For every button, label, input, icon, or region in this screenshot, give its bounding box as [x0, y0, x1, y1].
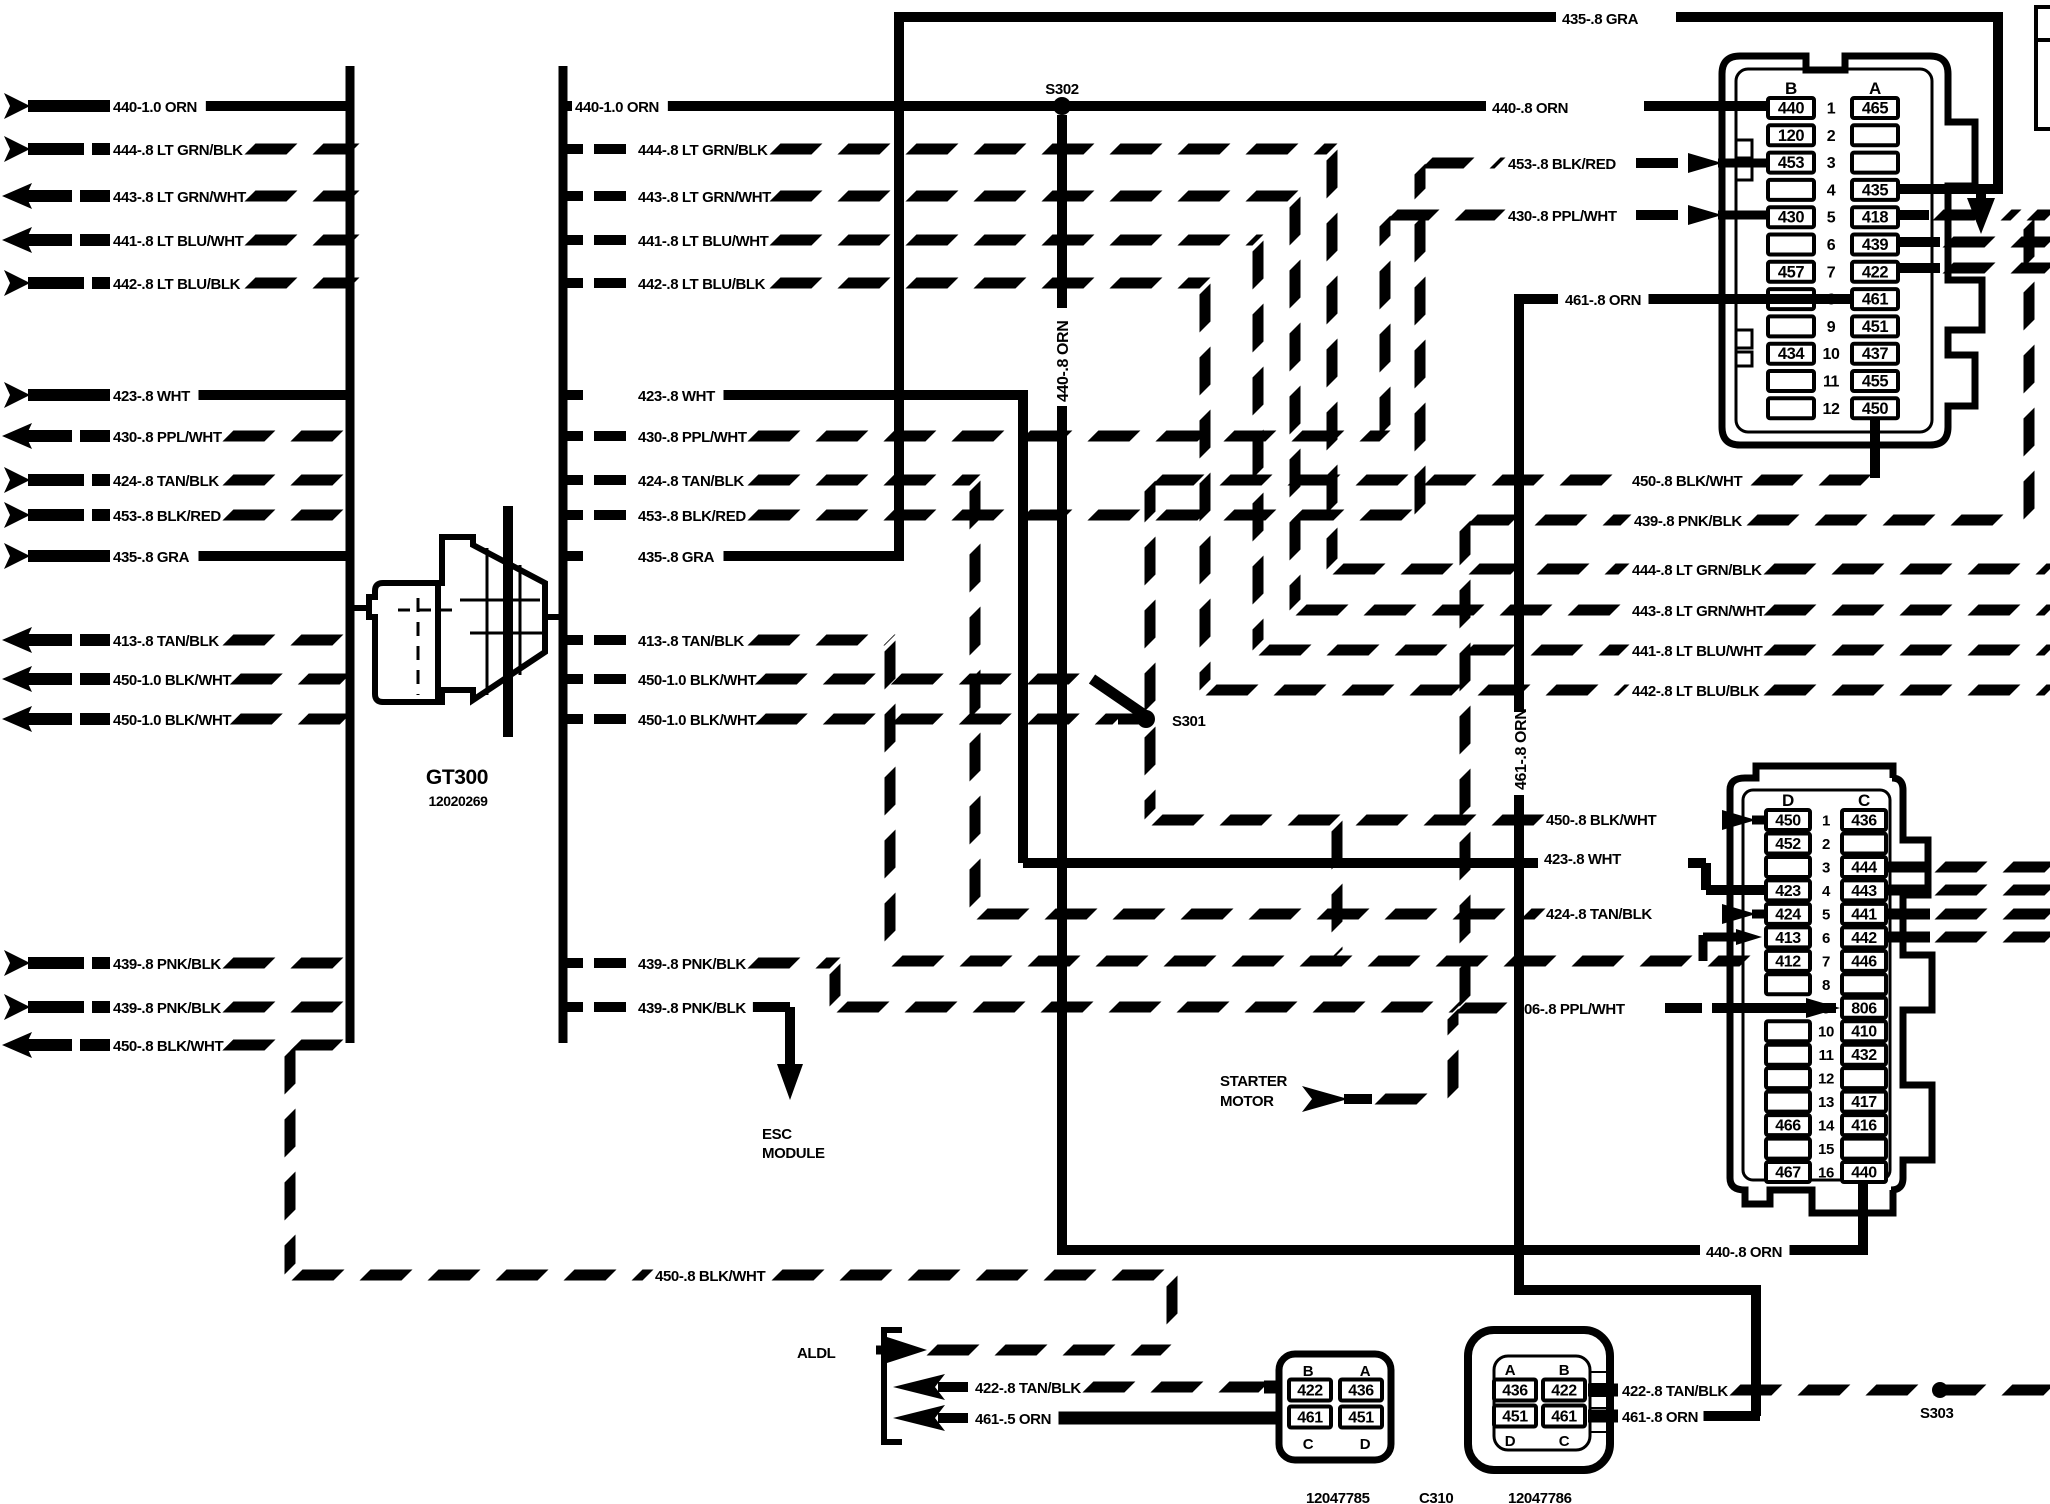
wire 430-.8 PPL/WHT (center stub, y=436): [559, 431, 583, 441]
svg-text:439-.8 PNK/BLK: 439-.8 PNK/BLK: [113, 1000, 221, 1017]
wire 444-.8 LT GRN/BLK (right row 569): [1338, 564, 1624, 575]
wire 450-1.0 BLK/WHT (center stub, y=679): [559, 674, 583, 684]
svg-text:S303: S303: [1920, 1405, 1953, 1422]
svg-text:450-1.0 BLK/WHT: 450-1.0 BLK/WHT: [113, 712, 231, 729]
wire 444-.8 LT GRN/BLK (left row, y=149): [4, 136, 30, 162]
wire 423-.8 WHT route: down at x=1023, right at y=863: [724, 390, 1024, 400]
svg-text:442-.8 LT BLU/BLK: 442-.8 LT BLU/BLK: [113, 276, 241, 293]
svg-text:9: 9: [1827, 319, 1836, 336]
svg-text:D: D: [1505, 1433, 1516, 1450]
upper connector left keyway tabs: [1736, 140, 1752, 180]
wire 461-.8 ORN main vertical x=1519: [1514, 294, 1524, 712]
svg-text:440-1.0 ORN: 440-1.0 ORN: [113, 99, 197, 116]
wire 440-.8 ORN riser into pin C16: [1858, 1180, 1868, 1255]
wire 439-.8 PNK/BLK (row 1007) solid to ESC MODULE arrow: [753, 1002, 790, 1012]
connector 12047786 pin 422: [1543, 1380, 1585, 1401]
svg-text:MOTOR: MOTOR: [1220, 1093, 1274, 1110]
svg-text:439-.8 PNK/BLK: 439-.8 PNK/BLK: [1634, 513, 1742, 530]
connector 12047785 pin 451: [1340, 1407, 1382, 1428]
svg-text:416: 416: [1851, 1118, 1877, 1135]
wire 430-.8 PPL/WHT route: up at x=1385 to pin B5: [753, 431, 1385, 442]
svg-text:453-.8 BLK/RED: 453-.8 BLK/RED: [113, 508, 221, 525]
svg-text:453-.8 BLK/RED: 453-.8 BLK/RED: [1508, 156, 1616, 173]
svg-text:439-.8 PNK/BLK: 439-.8 PNK/BLK: [638, 956, 746, 973]
svg-text:11: 11: [1823, 374, 1840, 391]
svg-text:B: B: [1785, 79, 1797, 98]
top right partial connector box: [2036, 7, 2050, 129]
connector 12047785 (ALDL) body: [1279, 1354, 1391, 1460]
svg-text:461-.5 ORN: 461-.5 ORN: [975, 1411, 1051, 1428]
svg-text:3: 3: [1822, 859, 1830, 876]
GT300 harness vertical line: [503, 506, 513, 737]
svg-text:450-1.0 BLK/WHT: 450-1.0 BLK/WHT: [638, 672, 756, 689]
connector 12047786 body (outer): [1468, 1330, 1610, 1470]
upper connector row 7 (B=457, A=422): [1768, 262, 1814, 282]
svg-text:435-.8 GRA: 435-.8 GRA: [113, 549, 190, 566]
svg-text:6: 6: [1827, 237, 1836, 254]
svg-text:3: 3: [1827, 155, 1836, 172]
svg-text:442-.8 LT BLU/BLK: 442-.8 LT BLU/BLK: [638, 276, 766, 293]
lower connector row 3 (D=nc, C=444): [1766, 857, 1810, 877]
svg-text:418: 418: [1862, 209, 1889, 227]
wire 450-.8 BLK/WHT (left row, y=1045): [2, 1032, 32, 1058]
GT300 stub to left bus: [350, 605, 372, 611]
svg-text:444-.8 LT GRN/BLK: 444-.8 LT GRN/BLK: [113, 142, 243, 159]
GT300 stub to right bus: [545, 614, 563, 620]
wire 439-.8 PNK/BLK (center stub, y=1007): [559, 1002, 583, 1012]
wire 439 stub from pin A6 to right edge: [1898, 237, 1940, 247]
svg-text:443: 443: [1851, 883, 1877, 900]
svg-text:452: 452: [1775, 836, 1801, 853]
svg-text:C: C: [1303, 1436, 1314, 1453]
svg-text:450-1.0 BLK/WHT: 450-1.0 BLK/WHT: [638, 712, 756, 729]
wire 441-.8 LT BLU/WHT (right row 650): [1264, 645, 1624, 656]
wire 443 stub from pin C4 to right edge: [1886, 885, 1930, 896]
svg-text:440: 440: [1778, 100, 1805, 118]
svg-text:467: 467: [1775, 1165, 1801, 1182]
svg-text:435-.8 GRA: 435-.8 GRA: [1562, 11, 1639, 28]
svg-text:453: 453: [1778, 154, 1805, 172]
svg-text:5: 5: [1822, 906, 1830, 923]
svg-text:413-.8 TAN/BLK: 413-.8 TAN/BLK: [638, 633, 744, 650]
svg-text:443-.8 LT GRN/WHT: 443-.8 LT GRN/WHT: [1632, 603, 1765, 620]
lower connector body inner: [1743, 790, 1890, 1180]
wire 430-.8 PPL/WHT (left row, y=436): [2, 423, 32, 449]
wire 439-.8 PNK/BLK: up at x=2029, exits right at y=215: [2024, 224, 2035, 514]
lower connector row 7 (D=412, C=446): [1766, 951, 1810, 971]
wire 450-.8 BLK/WHT bottom run y=1275: [297, 1270, 648, 1281]
wire 413/412 run at y=961 to pin D7: [897, 956, 1745, 967]
wire 413-.8 TAN/BLK route: down at x=890: [753, 635, 890, 646]
svg-text:S301: S301: [1172, 713, 1205, 730]
svg-text:422-.8 TAN/BLK: 422-.8 TAN/BLK: [975, 1380, 1081, 1397]
wire 440-.8 ORN label (upper right): [1486, 94, 1644, 118]
svg-text:451: 451: [1862, 318, 1889, 336]
svg-text:1: 1: [1822, 813, 1830, 830]
wire 424-.8 TAN/BLK route: down at x=975 to pin D5: [753, 475, 975, 486]
connector 12047786 inner comb: [1590, 1371, 1606, 1373]
wire 450-1.0 BLK/WHT (left row, y=719): [2, 706, 32, 732]
svg-text:466: 466: [1775, 1118, 1801, 1135]
svg-text:453-.8 BLK/RED: 453-.8 BLK/RED: [638, 508, 746, 525]
upper connector row 5 (B=430, A=418): [1768, 207, 1814, 227]
wire 439-.8 PNK/BLK (row 963): down at x=835: [753, 958, 835, 969]
ALDL row 2: wire 422-.8 TAN/BLK: [893, 1374, 945, 1400]
arrow into pin D1: [1722, 810, 1756, 830]
svg-text:442: 442: [1851, 930, 1877, 947]
svg-text:S302: S302: [1045, 81, 1078, 98]
svg-text:424: 424: [1775, 906, 1801, 923]
wire 422 stub from pin A7 to right edge: [1898, 263, 1940, 273]
ALDL row 3: wire 461-.5 ORN: [893, 1405, 945, 1431]
svg-text:12047785: 12047785: [1306, 1490, 1370, 1504]
svg-text:455: 455: [1862, 373, 1889, 391]
svg-text:440: 440: [1851, 1165, 1877, 1182]
svg-text:461: 461: [1297, 1410, 1323, 1427]
upper connector body outer: [1722, 56, 1982, 445]
svg-text:6: 6: [1822, 930, 1830, 947]
svg-text:446: 446: [1851, 953, 1877, 970]
splice S301 dot: [1137, 710, 1155, 728]
svg-text:422: 422: [1297, 1383, 1323, 1400]
right harness bus (trunk line 2): [559, 66, 568, 1043]
wire 439-.8 PNK/BLK: up at x=1465 to row 520: [1460, 526, 1471, 1001]
svg-text:432: 432: [1851, 1047, 1877, 1064]
wire 442 stub from pin C6 to right edge: [1886, 932, 1930, 943]
lower connector row 10 (D=nc, C=410): [1766, 1021, 1810, 1041]
svg-text:440-.8 ORN: 440-.8 ORN: [1492, 100, 1568, 117]
upper connector row 1 (B=440, A=465): [1768, 98, 1814, 118]
wire 440 into pin B1 (upper connector): [1700, 101, 1770, 111]
lower connector row 14 (D=466, C=416): [1766, 1115, 1810, 1135]
svg-text:450: 450: [1862, 400, 1889, 418]
wire 442-.8 LT BLU/BLK (left row, y=283): [4, 270, 30, 296]
lower connector body outer: [1730, 766, 1932, 1213]
wire 435-.8 GRA drop to pin A4: [1993, 12, 2003, 189]
svg-text:461: 461: [1862, 291, 1889, 309]
lower connector row 1 (D=450, C=436): [1766, 810, 1810, 830]
svg-text:436: 436: [1851, 813, 1877, 830]
wire 424-.8 TAN/BLK (center stub, y=480): [559, 475, 583, 485]
svg-text:443-.8 LT GRN/WHT: 443-.8 LT GRN/WHT: [638, 189, 771, 206]
svg-text:C310: C310: [1419, 1490, 1453, 1504]
svg-text:461-.8 ORN: 461-.8 ORN: [1565, 292, 1641, 309]
wire 450-.8 BLK/WHT (row 1045): down at x=290: [228, 1040, 290, 1051]
svg-text:450-.8 BLK/WHT: 450-.8 BLK/WHT: [655, 1268, 765, 1285]
svg-text:440-.8 ORN: 440-.8 ORN: [1706, 1244, 1782, 1261]
upper connector row 4 (B=nc, A=435): [1768, 180, 1814, 200]
arrow into pin B5: [1688, 205, 1722, 225]
svg-text:435-.8 GRA: 435-.8 GRA: [638, 549, 715, 566]
svg-text:439-.8 PNK/BLK: 439-.8 PNK/BLK: [113, 956, 221, 973]
wire 435-.8 GRA route: up at x=899 to top run: [724, 551, 900, 561]
wire 461-.8 ORN bottom route to connector 12047786: [1514, 1285, 1756, 1295]
wire 413 step up into pin D6 with arrow: [1699, 935, 1708, 961]
svg-text:451: 451: [1348, 1410, 1374, 1427]
connector 12047786 pin 461: [1543, 1406, 1585, 1427]
svg-text:442-.8 LT BLU/BLK: 442-.8 LT BLU/BLK: [1632, 683, 1760, 700]
svg-text:465: 465: [1862, 100, 1889, 118]
upper connector row 12 (B=nc, A=450): [1768, 398, 1814, 418]
svg-text:437: 437: [1862, 345, 1889, 363]
wire 440-1.0 ORN center run to splice S302 and on to pin B1: [668, 101, 1766, 111]
svg-text:430-.8 PPL/WHT: 430-.8 PPL/WHT: [113, 429, 222, 446]
wire 443-.8 LT GRN/WHT (left row, y=196): [2, 183, 32, 209]
svg-text:412: 412: [1775, 953, 1801, 970]
svg-text:C: C: [1559, 1433, 1570, 1450]
svg-text:ALDL: ALDL: [797, 1345, 836, 1362]
svg-text:424-.8 TAN/BLK: 424-.8 TAN/BLK: [1546, 906, 1652, 923]
svg-text:441-.8 LT BLU/WHT: 441-.8 LT BLU/WHT: [1632, 643, 1763, 660]
svg-text:806-.8 PPL/WHT: 806-.8 PPL/WHT: [1516, 1001, 1625, 1018]
svg-text:461: 461: [1551, 1409, 1577, 1426]
svg-text:2: 2: [1822, 836, 1830, 853]
ESC MODULE arrow (down): [777, 1064, 803, 1100]
wire 442-.8 LT BLU/BLK (center stub, y=283): [559, 278, 583, 288]
wire 450-1.0 BLK/WHT (row 719) into splice S301: [760, 714, 1118, 725]
svg-text:450: 450: [1775, 813, 1801, 830]
svg-text:436: 436: [1348, 1383, 1374, 1400]
lower connector row 13 (D=nc, C=417): [1766, 1092, 1810, 1112]
GT300 internal detail lines: [486, 548, 489, 695]
svg-text:450-.8 BLK/WHT: 450-.8 BLK/WHT: [113, 1038, 223, 1055]
upper connector row 3 (B=453, A=nc): [1768, 153, 1814, 173]
svg-text:GT300: GT300: [426, 766, 488, 789]
svg-text:12047786: 12047786: [1508, 1490, 1572, 1504]
lower connector row 5 (D=424, C=441): [1766, 904, 1810, 924]
svg-text:423-.8 WHT: 423-.8 WHT: [638, 388, 715, 405]
svg-text:441-.8 LT BLU/WHT: 441-.8 LT BLU/WHT: [638, 233, 769, 250]
svg-text:424-.8 TAN/BLK: 424-.8 TAN/BLK: [638, 473, 744, 490]
lower connector row 4 (D=423, C=443): [1766, 880, 1810, 900]
svg-text:424-.8 TAN/BLK: 424-.8 TAN/BLK: [113, 473, 219, 490]
wire 444-.8 LT GRN/BLK (center stub, y=149): [559, 144, 583, 154]
svg-text:461-.8 ORN: 461-.8 ORN: [1622, 1409, 1698, 1426]
lower connector row 16 (D=467, C=440): [1766, 1162, 1810, 1182]
wire 440-1.0 ORN (center stub, y=106): [559, 101, 572, 111]
svg-text:435: 435: [1862, 181, 1889, 199]
left harness bus (trunk line 1): [346, 66, 355, 1043]
svg-text:434: 434: [1778, 345, 1806, 363]
wire 435-.8 GRA (left row, y=556): [4, 543, 30, 569]
svg-text:MODULE: MODULE: [762, 1145, 825, 1162]
svg-text:450-1.0 BLK/WHT: 450-1.0 BLK/WHT: [113, 672, 231, 689]
upper connector row 8 (B=nc, A=461): [1768, 289, 1814, 309]
splice S302 dot: [1053, 97, 1071, 115]
wire 442-.8 LT BLU/BLK (right row 690): [1211, 685, 1624, 696]
wire 439-.8 PNK/BLK (left row, y=1007): [4, 994, 30, 1020]
svg-text:443-.8 LT GRN/WHT: 443-.8 LT GRN/WHT: [113, 189, 246, 206]
svg-text:440-1.0 ORN: 440-1.0 ORN: [575, 99, 659, 116]
svg-text:10: 10: [1818, 1024, 1834, 1041]
wire 439-.8 PNK/BLK (left row, y=963): [4, 950, 30, 976]
lower connector row 2 (D=452, C=nc): [1766, 833, 1810, 853]
wire 441-.8 LT BLU/WHT (left row, y=240): [2, 227, 32, 253]
STARTER MOTOR arrow and wire to 806: [1302, 1086, 1348, 1112]
lower connector row 12 (D=nc, C=nc): [1766, 1068, 1810, 1088]
wire 461-.8 ORN top corner and label: [1514, 294, 1558, 304]
wire 435-.8 GRA top run: [894, 12, 1556, 22]
svg-text:12: 12: [1818, 1071, 1834, 1088]
svg-text:422: 422: [1551, 1383, 1577, 1400]
wire 413-.8 TAN/BLK (center stub, y=640): [559, 635, 583, 645]
lower connector row 8 (D=nc, C=nc): [1766, 974, 1810, 994]
wire 450-1.0 BLK/WHT (left row, y=679): [2, 666, 32, 692]
svg-text:D: D: [1782, 791, 1794, 810]
svg-text:13: 13: [1818, 1094, 1834, 1111]
svg-text:441: 441: [1851, 906, 1877, 923]
connector 12047785 pin 436: [1340, 1380, 1382, 1401]
wire 453-.8 BLK/RED route: up at x=1420 to pin B3: [753, 510, 1420, 521]
wire 435-.8 GRA (center stub, y=556): [559, 551, 583, 561]
svg-text:ESC: ESC: [762, 1126, 792, 1143]
svg-text:457: 457: [1778, 263, 1805, 281]
wire 439-.8 PNK/BLK run at y=1007: [842, 1002, 1458, 1013]
svg-text:430: 430: [1778, 209, 1805, 227]
svg-text:444-.8 LT GRN/BLK: 444-.8 LT GRN/BLK: [1632, 562, 1762, 579]
svg-text:A: A: [1360, 1363, 1371, 1380]
wire 450-.8 BLK/WHT: up from S301 at x=1150 to row 480: [1145, 486, 1156, 706]
svg-text:423: 423: [1775, 883, 1801, 900]
svg-text:2: 2: [1827, 128, 1836, 145]
svg-text:11: 11: [1818, 1047, 1833, 1064]
upper connector row 2 (B=120, A=nc): [1768, 125, 1814, 145]
wire 413-.8 TAN/BLK (left row, y=640): [2, 627, 32, 653]
svg-text:7: 7: [1822, 953, 1830, 970]
lower connector row 11 (D=nc, C=432): [1766, 1045, 1810, 1065]
wire 442-.8 LT BLU/BLK route (down at x=1205): [775, 278, 1205, 289]
svg-text:8: 8: [1822, 977, 1830, 994]
connector 12047786 body (inner): [1494, 1356, 1590, 1450]
wire 450-1.0 BLK/WHT (center stub, y=719): [559, 714, 583, 724]
upper connector row 10 (B=434, A=437): [1768, 344, 1814, 364]
svg-text:430-.8 PPL/WHT: 430-.8 PPL/WHT: [1508, 208, 1617, 225]
wire 423-.8 WHT (center stub, y=395): [559, 390, 583, 400]
svg-text:444: 444: [1851, 859, 1877, 876]
svg-text:806: 806: [1851, 1000, 1877, 1017]
wire 441-.8 LT BLU/WHT (center stub, y=240): [559, 235, 583, 245]
svg-text:D: D: [1360, 1436, 1371, 1453]
svg-text:439: 439: [1862, 236, 1889, 254]
svg-text:5: 5: [1827, 210, 1836, 227]
wire 450-1.0 BLK/WHT (row 679) into splice S301: [760, 674, 1092, 685]
connector 12047786 pin 436: [1494, 1380, 1536, 1401]
wire 461-.8 ORN into pin A8 (over B8 cavity): [1649, 294, 1853, 304]
svg-text:417: 417: [1851, 1094, 1877, 1111]
svg-text:444-.8 LT GRN/BLK: 444-.8 LT GRN/BLK: [638, 142, 768, 159]
svg-text:422-.8 TAN/BLK: 422-.8 TAN/BLK: [1622, 1383, 1728, 1400]
wire 440-.8 ORN bottom run y=1250: [1062, 1245, 1700, 1255]
connector 12047786 pin 451: [1494, 1406, 1536, 1427]
svg-text:9: 9: [1822, 1000, 1830, 1017]
splice S303 dot: [1932, 1382, 1948, 1398]
upper connector row 6 (B=nc, A=439): [1768, 235, 1814, 255]
svg-text:413: 413: [1775, 930, 1801, 947]
connector 12047785 pin 422: [1289, 1380, 1331, 1401]
wire 443-.8 LT GRN/WHT (right row 610): [1301, 605, 1624, 616]
upper connector body inner: [1736, 69, 1932, 432]
svg-text:430-.8 PPL/WHT: 430-.8 PPL/WHT: [638, 429, 747, 446]
svg-text:441-.8 LT BLU/WHT: 441-.8 LT BLU/WHT: [113, 233, 244, 250]
wire 453-.8 BLK/RED (left row, y=515): [4, 502, 30, 528]
svg-text:12: 12: [1823, 401, 1840, 418]
svg-text:410: 410: [1851, 1024, 1877, 1041]
wire 439-.8 PNK/BLK (center stub, y=963): [559, 958, 583, 968]
wire 440-1.0 ORN (left row, y=106): [4, 93, 30, 119]
svg-text:16: 16: [1818, 1165, 1834, 1182]
svg-text:A: A: [1505, 1362, 1516, 1379]
upper connector row 11 (B=nc, A=455): [1768, 371, 1814, 391]
upper connector row 9 (B=nc, A=451): [1768, 316, 1814, 336]
arrow down at 418/439 junction: [1967, 198, 1995, 234]
wire 443-.8 LT GRN/WHT route (down at x=1295): [775, 191, 1295, 202]
connector GT300 grommet body: [369, 583, 438, 702]
svg-text:10: 10: [1823, 346, 1840, 363]
ALDL row 1 dashed wire with right arrow: [932, 1345, 1166, 1356]
wire 440-.8 ORN vertical feeder from S302: [1057, 115, 1067, 308]
arrow into pin D5: [1722, 904, 1756, 924]
svg-text:14: 14: [1818, 1118, 1835, 1135]
wire 806-.8 PPL/WHT into pin C9: [1665, 1003, 1702, 1013]
svg-text:120: 120: [1778, 127, 1805, 145]
svg-text:450-.8 BLK/WHT: 450-.8 BLK/WHT: [1546, 812, 1656, 829]
connector 12047785 pin 461: [1289, 1407, 1331, 1428]
wire 443-.8 LT GRN/WHT (center stub, y=196): [559, 191, 583, 201]
svg-text:423-.8 WHT: 423-.8 WHT: [1544, 851, 1621, 868]
wire 418 stub from pin A5: [1898, 210, 1929, 220]
svg-text:461-.8 ORN: 461-.8 ORN: [1513, 709, 1530, 790]
ALDL bracket: [884, 1330, 902, 1442]
svg-text:450-.8 BLK/WHT: 450-.8 BLK/WHT: [1632, 473, 1742, 490]
svg-text:423-.8 WHT: 423-.8 WHT: [113, 388, 190, 405]
svg-text:413-.8 TAN/BLK: 413-.8 TAN/BLK: [113, 633, 219, 650]
arrow into pin B3: [1688, 153, 1722, 173]
svg-text:4: 4: [1822, 883, 1831, 900]
wire 424-.8 TAN/BLK (left row, y=480): [4, 467, 30, 493]
svg-text:439-.8 PNK/BLK: 439-.8 PNK/BLK: [638, 1000, 746, 1017]
wire 423-.8 WHT (left row, y=395): [4, 382, 30, 408]
wire 444-.8 LT GRN/BLK route (down at x=1332): [775, 144, 1332, 155]
svg-text:7: 7: [1827, 264, 1836, 281]
wire 441 stub from pin C5 to right edge: [1886, 909, 1930, 920]
svg-text:12020269: 12020269: [428, 793, 488, 809]
wire 450-.8 BLK/WHT: down at x=1172 to ALDL row: [1167, 1281, 1178, 1344]
svg-text:451: 451: [1502, 1409, 1528, 1426]
svg-text:4: 4: [1827, 182, 1836, 199]
wire 461-.8 ORN from connector 12047786: [1588, 1410, 1618, 1423]
svg-text:436: 436: [1502, 1383, 1528, 1400]
wire 422-.8 TAN/BLK from connector 12047786: [1588, 1384, 1618, 1397]
wire 450-.8 BLK/WHT drop from pin A12: [1870, 420, 1880, 478]
svg-text:1: 1: [1827, 101, 1836, 118]
wire 453-.8 BLK/RED (center stub, y=515): [559, 510, 583, 520]
svg-text:B: B: [1559, 1362, 1570, 1379]
lower connector row 15 (D=nc, C=nc): [1766, 1139, 1810, 1159]
svg-text:440-.8 ORN: 440-.8 ORN: [1055, 321, 1072, 402]
wire 444 stub from pin C3 to right edge: [1886, 862, 1930, 873]
svg-text:15: 15: [1818, 1141, 1834, 1158]
wire 450-.8 BLK/WHT: down from S301 at x=1150 to row 820: [1145, 732, 1156, 814]
svg-text:422: 422: [1862, 263, 1889, 281]
wire 441-.8 LT BLU/WHT route (down at x=1258): [775, 235, 1258, 246]
svg-text:STARTER: STARTER: [1220, 1073, 1287, 1090]
lower connector row 6 (D=413, C=442): [1766, 927, 1810, 947]
wire branch x=1337 from row 820 down to row 961: [1332, 826, 1343, 955]
svg-text:C: C: [1858, 791, 1870, 810]
svg-text:A: A: [1869, 79, 1881, 98]
svg-text:B: B: [1303, 1363, 1314, 1380]
